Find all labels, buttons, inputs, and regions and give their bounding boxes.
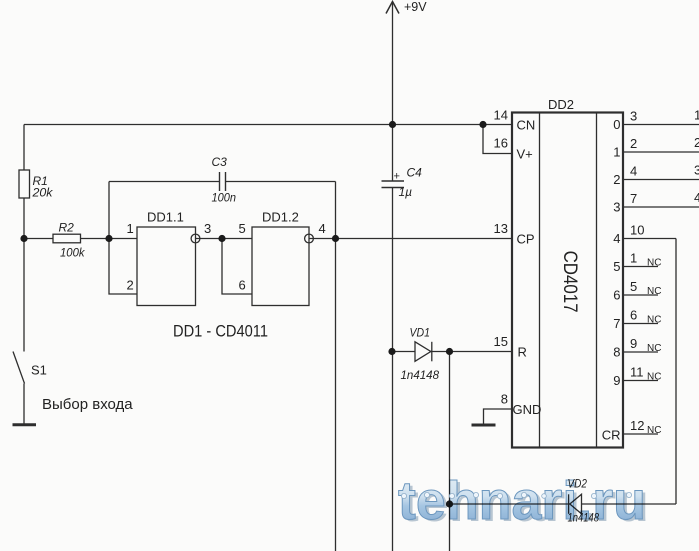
wire output 0 pin 3 — [623, 124, 699, 126]
svg-text:11: 11 — [630, 365, 644, 380]
wire gate1 output to gate2 input — [196, 238, 253, 240]
wire CR pin 12 NC stub — [623, 433, 658, 435]
op-amp gate DD1.1 body — [137, 227, 196, 306]
node +9V top rail junction — [389, 121, 396, 128]
wire VD1 row to R pin — [392, 351, 512, 353]
wire output 6 pin 5 NC stub — [623, 294, 658, 296]
wire C3 feedback branch left vertical — [108, 182, 110, 239]
svg-text:V+: V+ — [517, 147, 533, 162]
wire output 2 pin 4 — [623, 179, 699, 181]
resistor R2 100k — [53, 234, 81, 243]
node CN V+ branch junction — [479, 121, 486, 128]
svg-text:1n4148: 1n4148 — [401, 368, 440, 382]
svg-text:DD1 - CD4011: DD1 - CD4011 — [173, 323, 268, 341]
svg-text:C4: C4 — [407, 166, 423, 180]
svg-text:15: 15 — [494, 334, 508, 349]
svg-text:NC: NC — [647, 425, 661, 436]
resistor R1 20k — [19, 170, 30, 198]
svg-text:7: 7 — [630, 191, 637, 206]
svg-text:VD1: VD1 — [410, 326, 431, 340]
wire node to R2 — [24, 238, 53, 240]
svg-text:C3: C3 — [212, 155, 228, 169]
wire V+ branch — [483, 125, 512, 154]
wire pin2 branch — [109, 239, 137, 295]
wire right return vertical up to pin 10 — [675, 239, 677, 505]
svg-text:2: 2 — [630, 136, 637, 151]
node VD1 left junction — [388, 348, 395, 355]
svg-text:1: 1 — [694, 108, 699, 123]
wire bottom return — [450, 503, 677, 505]
node gate2 input junction — [218, 235, 225, 242]
svg-text:100k: 100k — [60, 246, 85, 260]
svg-text:16: 16 — [494, 136, 508, 151]
svg-text:9: 9 — [613, 373, 620, 388]
switch S1 lever — [13, 352, 25, 384]
svg-text:4: 4 — [319, 221, 326, 236]
op-amp gate DD1.2 body — [252, 227, 309, 306]
wire output 5 pin 1 NC stub — [623, 266, 658, 268]
capacitor C4 plates — [382, 181, 405, 188]
power arrow +9V — [386, 2, 399, 14]
svg-text:4: 4 — [613, 231, 620, 246]
svg-text:NC: NC — [647, 372, 661, 383]
svg-text:3: 3 — [613, 200, 620, 215]
svg-text:S1: S1 — [31, 363, 47, 378]
node gate1 input junction — [105, 235, 112, 242]
svg-text:4: 4 — [694, 190, 699, 205]
watermark rivet dots — [401, 492, 631, 498]
svg-text:4: 4 — [630, 164, 637, 179]
svg-text:NC: NC — [647, 286, 661, 297]
wire output node down to bottom edge — [335, 239, 337, 551]
svg-text:8: 8 — [613, 345, 620, 360]
svg-text:CD4017: CD4017 — [559, 251, 581, 313]
svg-text:5: 5 — [239, 221, 246, 236]
svg-text:+9V: +9V — [404, 0, 427, 14]
svg-text:GND: GND — [513, 402, 542, 417]
svg-text:2: 2 — [127, 278, 134, 293]
inversion bubble DD1.2 output — [305, 234, 314, 243]
svg-text:0: 0 — [613, 117, 620, 132]
node bottom return junction — [446, 500, 453, 507]
svg-text:1: 1 — [630, 251, 637, 266]
capacitor C3 100n plates — [220, 172, 226, 191]
svg-text:NC: NC — [647, 315, 661, 326]
node VD1 right junction — [446, 348, 453, 355]
wire VD1 node down to bottom edge — [449, 352, 451, 551]
wire output 3 pin 7 — [623, 206, 699, 208]
diode VD1 1n4148 — [415, 342, 432, 362]
node gate2 output junction — [332, 235, 339, 242]
wire output 7 pin 6 NC stub — [623, 323, 658, 325]
IC DD2 CD4017 body — [512, 113, 623, 448]
wire C3 feedback top right segment — [226, 181, 336, 183]
wire GND pin branch — [484, 409, 513, 424]
svg-text:9: 9 — [630, 336, 637, 351]
svg-text:DD2: DD2 — [548, 97, 574, 112]
wire top rail from left corner to DD2 CN — [24, 124, 512, 126]
svg-text:7: 7 — [613, 316, 620, 331]
wire below C4 to bottom edge — [392, 188, 394, 551]
svg-text:12: 12 — [630, 418, 644, 433]
svg-text:8: 8 — [501, 392, 508, 407]
svg-text:5: 5 — [630, 279, 637, 294]
svg-text:R2: R2 — [59, 221, 75, 235]
svg-text:2: 2 — [694, 135, 699, 150]
svg-text:3: 3 — [630, 109, 637, 124]
svg-text:DD1.2: DD1.2 — [262, 210, 299, 225]
wire C3 feedback top left segment — [109, 181, 220, 183]
svg-text:5: 5 — [613, 259, 620, 274]
svg-text:2: 2 — [613, 172, 620, 187]
ground bar under S1 — [13, 423, 37, 426]
svg-text:Выбор входа: Выбор входа — [42, 396, 133, 413]
svg-text:6: 6 — [613, 288, 620, 303]
svg-text:tehnari.ru: tehnari.ru — [398, 471, 646, 531]
wire left vertical from top rail to R1 — [23, 125, 25, 171]
svg-text:1µ: 1µ — [399, 185, 413, 199]
wire output 9 pin 11 NC stub — [623, 380, 658, 382]
ground bar DD2 — [472, 424, 496, 427]
wire S1 to ground — [23, 384, 25, 424]
svg-text:13: 13 — [494, 221, 508, 236]
svg-text:CP: CP — [517, 232, 535, 247]
wire output 1 pin 2 — [623, 151, 699, 153]
wire R1 bottom to R2 node — [23, 198, 25, 239]
watermark tehnari.ru — [398, 471, 649, 533]
svg-text:NC: NC — [647, 258, 661, 269]
svg-text:DD1.1: DD1.1 — [147, 210, 184, 225]
svg-text:CN: CN — [517, 118, 536, 133]
svg-text:1: 1 — [613, 145, 620, 160]
svg-text:6: 6 — [630, 308, 637, 323]
svg-text:6: 6 — [239, 278, 246, 293]
wire pin6 branch — [222, 239, 252, 295]
wire output 8 pin 9 NC stub — [623, 351, 658, 353]
wire R2 to gate input node — [81, 238, 138, 240]
svg-text:100n: 100n — [212, 191, 237, 205]
svg-text:3: 3 — [694, 163, 699, 178]
diode VD2 1n4148 — [569, 494, 582, 514]
svg-text:20k: 20k — [31, 186, 53, 200]
inversion bubble DD1.1 output — [191, 234, 200, 243]
wire pin 10 output — [623, 238, 676, 240]
svg-text:CR: CR — [602, 428, 621, 443]
svg-text:+: + — [394, 171, 400, 183]
svg-text:14: 14 — [494, 108, 508, 123]
svg-text:R: R — [518, 345, 527, 360]
svg-text:NC: NC — [647, 343, 661, 354]
wire +9V supply vertical — [392, 3, 394, 182]
svg-text:3: 3 — [204, 221, 211, 236]
wire gate2 output to DD2 CP — [309, 238, 512, 240]
svg-text:1: 1 — [127, 221, 134, 236]
node R2 left junction — [20, 235, 27, 242]
wire C3 feedback right vertical — [335, 182, 337, 239]
wire node to S1 — [23, 239, 25, 352]
svg-text:10: 10 — [630, 223, 644, 238]
